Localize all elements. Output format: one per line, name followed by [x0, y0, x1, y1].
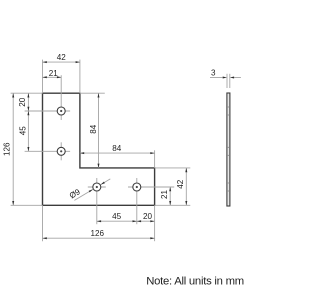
centerline hole H1 vertical (extends to 21 dim): [60, 75, 62, 120]
centerline hole H1 horizontal (extends to 20/45 dims): [25, 110, 71, 112]
plate outline (L-shaped bracket front view): [43, 93, 155, 205]
dimension 84 horizontal: [80, 152, 155, 154]
leader line Ø9 (hole diameter callout): [74, 189, 93, 200]
side view hole edge lines: [227, 106, 230, 108]
hole H2 (Ø9): [57, 147, 65, 155]
svg-text:3: 3: [211, 68, 216, 77]
extension lines bottom (126 dim): [42, 205, 44, 241]
extension line bottom-left: [11, 204, 43, 206]
svg-text:21: 21: [49, 69, 59, 78]
centerline hole H3 vertical (extends to bottom 45 dim): [96, 178, 98, 224]
extension line top-left: [11, 92, 43, 94]
svg-text:42: 42: [176, 179, 185, 189]
extension line above arm right corner: [154, 150, 156, 168]
centerline hole H2 vertical: [60, 142, 62, 160]
centerline hole H4 vertical (extends to bottom dims): [136, 178, 138, 224]
svg-text:20: 20: [143, 212, 153, 221]
centerline hole H3 horizontal: [88, 186, 106, 188]
extension line bottom-right: [155, 204, 191, 206]
extension lines for 3 dim: [226, 74, 228, 88]
svg-text:45: 45: [112, 212, 122, 221]
dimension 3 (thickness): [210, 77, 223, 79]
dimension 20 bottom: [137, 220, 155, 222]
dimension 126 left: [12, 93, 14, 205]
extension line top-right of arm: [80, 92, 105, 94]
svg-text:126: 126: [2, 142, 11, 156]
hole H3 (Ø9): [93, 183, 101, 191]
dimension 20 left: [27, 93, 29, 111]
svg-text:84: 84: [89, 124, 98, 134]
dimension 21 right: [169, 187, 171, 205]
dimension 42 top: [43, 61, 80, 63]
svg-text:21: 21: [160, 190, 169, 200]
svg-text:84: 84: [112, 144, 122, 153]
dimension 84 vertical: [98, 93, 100, 168]
extension line arm top-right: [155, 167, 191, 169]
dimension 126 bottom: [43, 237, 155, 239]
dimension 45 left: [27, 111, 29, 151]
hole H1 (Ø9): [57, 107, 65, 115]
svg-text:45: 45: [18, 126, 27, 136]
centerline hole H2 horizontal (extends to 45 dim): [25, 150, 71, 152]
svg-text:Note: All units in mm: Note: All units in mm: [146, 276, 244, 288]
svg-text:20: 20: [18, 97, 27, 107]
dimension 42 right: [185, 168, 187, 205]
centerline hole H4 horizontal (extends to right 21 dim): [128, 186, 174, 188]
dimension 21 top: [43, 76, 62, 78]
svg-text:Ø9: Ø9: [68, 187, 82, 201]
hole H4 (Ø9): [133, 183, 141, 191]
side view plate (3mm thick): [227, 93, 230, 206]
svg-text:42: 42: [57, 53, 67, 62]
extension lines top (42 dim): [42, 60, 44, 94]
svg-text:126: 126: [90, 229, 104, 238]
dimension 45 bottom: [97, 220, 137, 222]
